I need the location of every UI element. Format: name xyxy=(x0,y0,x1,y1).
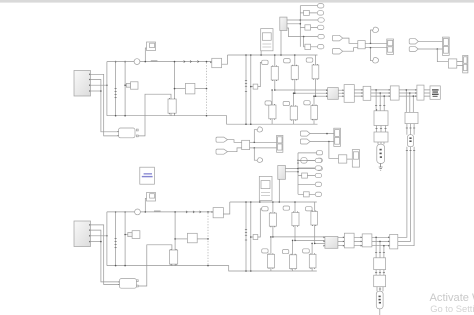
load L5b xyxy=(290,254,297,270)
out port P3 xyxy=(318,18,324,22)
main wire W1 left xyxy=(107,61,134,63)
wire L6a down xyxy=(314,225,316,243)
load L5a xyxy=(292,211,299,226)
wire FT6 to N1 xyxy=(310,141,334,143)
wire L5a down xyxy=(294,226,296,241)
wire PS1 out1 to transformer T1 in2 xyxy=(90,74,118,136)
riser phase A2 xyxy=(115,61,117,116)
wire L1b to bus B2 xyxy=(271,119,273,124)
riser phase B1 xyxy=(106,212,108,266)
trunk wire TRa xyxy=(245,54,247,125)
phase line PLA xyxy=(274,89,328,91)
wire TT2 to flag F1c xyxy=(258,209,262,237)
wire L1a down xyxy=(274,80,276,90)
wire Q1a to measure line xyxy=(195,88,207,90)
long riser RB3 xyxy=(398,147,414,246)
fan FS2 dist wires xyxy=(285,153,298,194)
chain block C3 xyxy=(390,86,399,100)
breaker CB2 xyxy=(135,209,141,215)
chain block D2 xyxy=(362,234,372,247)
filter block R1a xyxy=(168,98,176,114)
flag F4a xyxy=(262,207,268,211)
chain block D3 xyxy=(390,234,398,249)
flag F2a xyxy=(284,59,291,63)
flag F5b xyxy=(282,250,288,254)
junction dots on bus B1 xyxy=(115,115,208,117)
scope pair H1 xyxy=(387,39,394,54)
top window band xyxy=(0,0,474,3)
phase ticks on trunk xyxy=(245,81,247,92)
load L4a xyxy=(269,212,276,227)
ticks SE2-slim xyxy=(377,287,383,292)
bus B1b horizontal xyxy=(107,266,317,271)
out port P10 xyxy=(315,182,321,186)
chain block C1 xyxy=(344,85,354,103)
ticks SB1 xyxy=(406,124,415,135)
wire L4b to bus B2b xyxy=(270,268,272,271)
fan2 row3 wires xyxy=(298,175,315,177)
wires C3 to C4 xyxy=(399,89,417,97)
wire trunk tap to G1a xyxy=(124,84,126,86)
fan row5 wire xyxy=(287,28,318,37)
fan subsystem FS1 xyxy=(280,17,287,30)
scope S1a above breaker xyxy=(147,42,156,51)
series block SE1 xyxy=(374,258,386,270)
transformer T2 xyxy=(118,279,138,289)
wire J1 to blob U1 xyxy=(371,30,373,43)
wire FT1 to J1 xyxy=(343,38,358,43)
wires D2 to D3 xyxy=(372,236,390,246)
wire PS1 out4 join xyxy=(90,90,102,92)
fan row4 block xyxy=(305,25,311,30)
scope pair N1 xyxy=(334,128,341,146)
riser phase B2 xyxy=(115,211,117,266)
wire K1 to blob U3 xyxy=(254,130,257,143)
flag F6a xyxy=(306,207,313,211)
fan row2 block xyxy=(304,10,310,15)
breaker CB1 xyxy=(134,59,140,65)
out port P9 xyxy=(315,173,321,177)
wire J1 to blob U2 xyxy=(371,48,373,61)
wires C1 to C2 xyxy=(354,89,363,97)
three-phase source block PS2 xyxy=(74,221,91,247)
wire T2 out to R2a xyxy=(138,245,172,286)
wire SC2 to bus xyxy=(259,201,261,203)
out port P11 xyxy=(315,192,321,196)
load L2b drop xyxy=(293,92,295,106)
fan row6 wires xyxy=(304,37,318,47)
wire Q2a to measure line xyxy=(197,238,209,240)
flag F1 xyxy=(262,60,268,64)
port oval OV2 xyxy=(317,166,323,170)
flag F5a xyxy=(283,206,289,210)
fan subsystem FS2 xyxy=(278,166,286,180)
powergui block xyxy=(140,167,155,184)
block V2m measurement xyxy=(212,208,224,218)
branch col1b drop xyxy=(272,201,274,213)
chain block C4 xyxy=(417,85,424,100)
ticks riser B xyxy=(406,150,415,152)
scope block Q1 xyxy=(352,150,359,168)
wire V1 to bus T1 xyxy=(222,55,228,64)
from tag FT1 xyxy=(332,35,342,41)
wire S2a to W2 xyxy=(145,199,147,213)
trunk wire TRb xyxy=(250,54,252,125)
blob U4 xyxy=(257,158,263,163)
wires M1 to C1 xyxy=(338,89,344,97)
chain block D1 xyxy=(344,233,354,248)
branch col2b drop xyxy=(294,201,296,212)
wire L6b to bus B2b xyxy=(311,268,313,271)
flag F3a xyxy=(306,58,313,62)
transformer T1 xyxy=(117,128,138,138)
wire FS2 to bus xyxy=(279,179,281,203)
watermark line 2 xyxy=(430,303,474,314)
phase ticks on trunk b xyxy=(245,230,247,241)
filter block R2a xyxy=(169,249,177,265)
wires D1 to D2 xyxy=(354,236,362,246)
machine ME xyxy=(376,291,383,309)
flag F3b xyxy=(304,101,310,105)
load L2b xyxy=(290,105,297,121)
wire SC1 to bus xyxy=(260,51,262,56)
branch col3 drop xyxy=(315,55,317,65)
fan row6 block xyxy=(305,44,311,49)
branch col2 drop xyxy=(294,54,296,65)
gain block G1a xyxy=(126,82,138,89)
fan2 row4 wire xyxy=(298,183,315,185)
blob U3 xyxy=(257,127,263,132)
trunk wire TR2b xyxy=(250,201,252,272)
wires M2 to D1 xyxy=(338,236,345,246)
blob U1 xyxy=(373,27,379,32)
flow arrows on W2 xyxy=(186,211,201,213)
wire GT2 to K1 xyxy=(228,148,242,152)
block J2 xyxy=(448,59,456,68)
wire P1 to Q1 xyxy=(347,158,353,160)
scope S2a above breaker xyxy=(147,193,156,202)
wire W1 tap to R1a xyxy=(174,61,176,99)
fan2 row2 wire xyxy=(298,167,315,169)
out port P6 xyxy=(318,45,324,49)
load L3b xyxy=(311,105,318,121)
block Q2a xyxy=(187,233,197,243)
phase ticks on riser b xyxy=(115,239,117,248)
phase line PLA2 xyxy=(272,236,325,238)
fan row2 wires xyxy=(300,12,317,14)
fan row4 wires xyxy=(300,26,317,28)
taps to series chain B xyxy=(406,89,415,112)
load L4b xyxy=(267,253,274,269)
from tag FT4 xyxy=(409,47,418,52)
goto tag GT1 xyxy=(216,137,227,142)
phase line PLC xyxy=(315,95,328,97)
out port P5 xyxy=(318,34,324,38)
ticks SE1-SE2 xyxy=(375,270,385,276)
load L6a xyxy=(311,210,318,226)
main wire W1 right xyxy=(140,61,212,63)
wire L3a down xyxy=(315,79,317,96)
wires R2a to bus B1b xyxy=(172,264,175,266)
scope SC2 xyxy=(259,176,272,200)
riser phase A3 xyxy=(124,61,126,116)
taps to series chain E xyxy=(375,237,385,258)
wire K1 to blob U4 xyxy=(254,148,257,160)
fan2 row5 block xyxy=(304,192,310,197)
branch col3b drop xyxy=(314,202,316,211)
scope pair H2 xyxy=(443,37,450,55)
wires K1 out xyxy=(250,142,277,149)
main wire W2 left xyxy=(107,211,135,213)
scope SC1 xyxy=(261,29,273,51)
fan2 row1 wire xyxy=(298,160,315,162)
wire W2 tap to R2a xyxy=(174,211,176,250)
fan FS1 dist wires xyxy=(287,6,301,47)
wire PS2 out2 to transformer T2 in1 xyxy=(90,230,119,282)
wire L2b to bus B2 xyxy=(293,120,295,124)
wires R1a to bus B1 xyxy=(171,113,175,116)
label on W1 xyxy=(151,60,158,61)
out port P1 xyxy=(318,4,324,8)
load L4b drop xyxy=(270,236,272,254)
fan row3 wire xyxy=(300,19,318,21)
wire PS2 out4 join xyxy=(90,241,102,243)
block J1 xyxy=(358,41,365,49)
wire V2m to bus T2 xyxy=(223,202,229,214)
phase line PLB2 xyxy=(294,240,325,242)
phase line PLB xyxy=(294,92,328,94)
ground GA xyxy=(379,164,383,171)
out port P4 xyxy=(318,25,324,29)
series block SB1 xyxy=(405,112,418,123)
wire to J2 xyxy=(437,49,448,62)
wire N1 to P1 xyxy=(329,142,339,159)
wires J2 out xyxy=(457,62,463,66)
wire trunk to TT1 xyxy=(250,86,253,88)
junction dots on bus B1b xyxy=(115,265,209,267)
wire T1 out to R1a xyxy=(137,94,171,136)
port oval OV1 xyxy=(317,158,323,162)
wire trunk tap to G2a xyxy=(124,234,128,236)
wire FT4 to H2 xyxy=(418,48,442,50)
wire node to Q2a xyxy=(174,238,187,240)
wire FT3 to H2 xyxy=(418,40,442,42)
long riser RB2 xyxy=(398,147,411,242)
blob U2 xyxy=(373,58,379,64)
fan row1 wire xyxy=(300,5,317,7)
machine MA xyxy=(377,144,385,163)
phase line PLC2 xyxy=(314,243,325,245)
fan2 row5 wires xyxy=(298,193,315,195)
dashed measure line M1a xyxy=(206,61,208,115)
wire PS1 out2 to transformer T1 in1 xyxy=(90,80,118,132)
round block RS1 xyxy=(301,158,307,163)
flag F2b xyxy=(283,101,289,105)
flag F6b xyxy=(303,249,310,253)
block K1 xyxy=(242,140,250,149)
measure block M1 xyxy=(326,88,338,100)
load L5b drop xyxy=(292,240,294,255)
wire L3b to bus B2 xyxy=(313,119,315,124)
out port P2 xyxy=(317,11,323,15)
series block SA2 xyxy=(374,132,388,142)
flag FR1 xyxy=(317,151,323,155)
riser phase B3 xyxy=(124,211,126,266)
block Q1a xyxy=(185,83,195,94)
svg-text:Go to Settings to: Go to Settings to xyxy=(430,303,474,314)
series block SA1 xyxy=(374,109,388,126)
wire L4a down xyxy=(272,226,274,237)
out port P8 xyxy=(315,166,321,170)
bus T2 top xyxy=(230,201,317,203)
dashed measure line M2a xyxy=(207,211,209,265)
branch col1 drop xyxy=(274,54,276,66)
wire L2a down xyxy=(294,79,296,93)
ticks SA1-SA2 xyxy=(375,126,386,133)
series block SE2 xyxy=(374,275,386,287)
scope pair H4 xyxy=(277,135,283,152)
from tag FT2 xyxy=(332,49,342,55)
machine MB xyxy=(407,135,413,147)
wire trunk to TT2 xyxy=(250,236,253,238)
from tag FT5 xyxy=(300,131,310,136)
from tag FT6 xyxy=(300,139,310,144)
load L1b xyxy=(269,104,276,120)
load L2a xyxy=(291,65,298,81)
wire node to Q1a xyxy=(174,88,186,90)
goto tag GT2 xyxy=(216,149,227,154)
wire FT2 to J1 xyxy=(343,48,358,52)
tiny block TT2 xyxy=(253,235,258,240)
display block C5 xyxy=(430,86,440,99)
wires C4 to C5 xyxy=(424,90,430,96)
chain block C2 xyxy=(363,86,371,100)
flag F4b xyxy=(262,249,268,253)
block V1 measurement xyxy=(210,58,221,67)
wire TT1 to flag F1 xyxy=(258,62,262,86)
watermark line 1 xyxy=(430,292,474,304)
label on W2 xyxy=(154,210,161,211)
wire S1a to W1 xyxy=(145,48,147,62)
measure block M2 xyxy=(324,236,338,248)
bus T1 top xyxy=(228,54,318,56)
wires J1 out xyxy=(365,43,387,49)
riser phase A1 xyxy=(106,62,108,116)
gain block G2a xyxy=(128,231,140,239)
load L3b drop xyxy=(313,95,315,105)
wire ME to edge xyxy=(379,309,381,315)
ticks SA2-slim xyxy=(378,142,384,144)
wire GT1 to K1 xyxy=(228,140,242,143)
phase ticks on riser xyxy=(115,89,117,98)
wire PS2 out1 to transformer T2 in2 xyxy=(90,225,119,285)
sub row wires xyxy=(297,153,316,169)
trunk wire TR2a xyxy=(245,201,247,272)
wire PS2 out3 to riser xyxy=(90,235,108,237)
load L3a xyxy=(312,64,319,80)
flow arrows on W1 xyxy=(184,61,199,63)
load L1b drop xyxy=(271,89,273,105)
bus B1 horizontal xyxy=(107,116,318,125)
from tag FT3 xyxy=(409,39,418,44)
load L1a xyxy=(271,65,278,81)
taps to series chain A xyxy=(375,89,385,111)
long riser RB1 xyxy=(398,147,407,238)
flag F1b xyxy=(265,101,271,105)
wire PS1 out3 to riser xyxy=(90,84,108,86)
tiny block TT1 xyxy=(253,84,258,89)
wires C2 to C3 xyxy=(371,89,391,97)
three-phase source block PS1 xyxy=(74,71,91,97)
block P1 xyxy=(339,155,347,163)
wire L5b to bus B2b xyxy=(292,269,294,271)
main wire W2 right xyxy=(140,211,213,213)
wire FS1 to bus xyxy=(280,31,282,56)
fan2 row3 block xyxy=(302,173,308,178)
load L6b drop xyxy=(311,243,313,255)
out port P7 xyxy=(315,158,321,162)
load L6b xyxy=(309,253,316,269)
scope pair H3 xyxy=(463,55,468,73)
wire FT5 to N1 xyxy=(310,133,334,135)
